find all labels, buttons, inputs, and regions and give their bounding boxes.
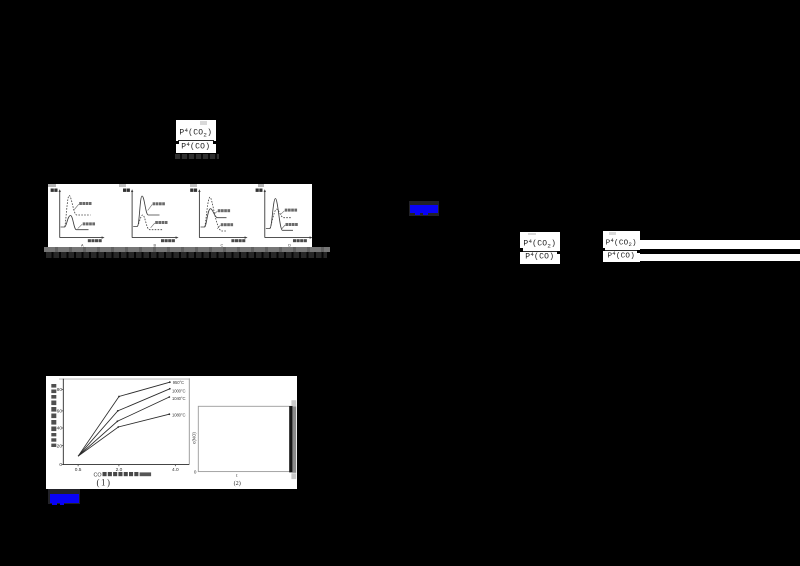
energy diagram C: label reaction lower — [220, 223, 223, 226]
formula image 2: white box — [520, 232, 561, 264]
formula image 1: denominator P4(CO) — [176, 141, 217, 152]
energy diagram D: label reaction upper — [284, 209, 287, 212]
formula image 3: right notch — [637, 250, 640, 253]
svg-text:4.0: 4.0 — [171, 467, 178, 473]
svg-text:60: 60 — [56, 409, 62, 415]
formula image 2: left notch — [519, 248, 522, 251]
formula image 2: grey smudge — [528, 233, 536, 235]
chart 1: curve 1080 C — [78, 414, 169, 456]
chart 2: scrollbar top button — [291, 400, 296, 406]
energy diagram A: label reaction lower — [82, 222, 85, 225]
svg-text:20: 20 — [56, 443, 62, 449]
energy diagram C: label reaction upper — [217, 209, 220, 212]
svg-text:t: t — [236, 474, 238, 479]
energy diagram D: axes — [264, 190, 310, 237]
svg-text:950°C: 950°C — [172, 380, 183, 385]
formula image 2: fraction line — [522, 251, 559, 252]
energy diagram A: x-axis label blob (reaction process) — [87, 239, 90, 242]
energy diagram C: dashed curve reaction II — [204, 197, 226, 231]
strip: dark text row below — [46, 252, 327, 258]
energy diagram C: solid curve reaction I — [200, 209, 226, 227]
energy diagram A: solid curve reaction I — [60, 215, 88, 229]
energy diagram D: dashed curve reaction II — [269, 209, 290, 228]
energy diagram C: x-axis label blob (reaction process) — [231, 239, 234, 242]
chart 1: curve 950 C — [78, 382, 170, 456]
white highlight bar line 1 — [640, 240, 800, 249]
energy diagram A: energy axis label blob — [50, 188, 53, 191]
energy diagram D: label reaction lower — [285, 223, 288, 226]
chart 2: scrollbar bottom button — [291, 473, 296, 479]
energy diagram B: axes — [132, 190, 177, 237]
blue link 2: dark backdrop — [48, 489, 80, 503]
energy diagram D: x-axis label blob (reaction process) — [292, 239, 295, 242]
svg-text:80: 80 — [56, 387, 62, 393]
energy diagram B: solid curve reaction I — [133, 196, 159, 226]
energy diagram C: energy axis label blob — [190, 188, 193, 191]
chart 2: thick black right edge — [289, 406, 292, 472]
chart 1: y-axis title blobs (CaS solid-phase percent) — [51, 384, 56, 388]
formula image 3: numerator P4(CO2) — [603, 237, 641, 248]
svg-text:c(NO): c(NO) — [191, 432, 196, 444]
blue link 1: blue text blob — [410, 205, 438, 213]
chart 1: axes — [63, 379, 189, 465]
svg-text:0: 0 — [193, 470, 196, 475]
svg-text:1000°C: 1000°C — [171, 389, 184, 394]
energy diagram B: label reaction upper — [152, 202, 155, 205]
chart 1: curve 1040 C — [78, 397, 169, 456]
formula image 3: fraction line — [605, 250, 639, 251]
bottom chart panel white background — [46, 376, 297, 489]
strip: grey shadow band below images — [44, 247, 330, 252]
chart 1: curve 1000 C — [78, 389, 170, 456]
formula image 2: right notch — [557, 251, 561, 254]
chart 2: scrollbar shaft — [292, 406, 296, 472]
svg-text:0.5: 0.5 — [74, 467, 81, 473]
svg-text:0: 0 — [59, 462, 62, 468]
formula image 1: dark shadow text row below — [175, 154, 219, 160]
energy diagram B: label reaction lower — [155, 221, 158, 224]
energy diagram D: solid curve reaction I — [265, 198, 292, 230]
energy diagram B: x-axis label blob (reaction process) — [161, 239, 164, 242]
formula image 1: right notch — [213, 141, 217, 144]
chart 2: plot box outline — [198, 406, 290, 471]
formula image 1: white box — [176, 120, 217, 153]
chart panel: separator line between chart images — [188, 378, 189, 464]
formula image 3: left notch — [602, 248, 605, 251]
formula image 3: denominator P4(CO) — [603, 250, 641, 260]
blue link 1: dark backdrop — [409, 201, 440, 217]
svg-text:1080°C: 1080°C — [171, 412, 184, 417]
chart panel: faint top border of embedded image — [59, 378, 190, 379]
energy diagram A: label reaction upper — [79, 202, 82, 205]
svg-text:(2): (2) — [233, 480, 240, 487]
formula image 1: numerator P4(CO2) — [176, 127, 217, 138]
formula image 3: grey smudge — [609, 232, 617, 235]
energy diagram A: dashed curve reaction II — [64, 195, 90, 226]
formula image 2: denominator P4(CO) — [520, 251, 561, 262]
energy diagram A: axes — [59, 190, 102, 237]
svg-text:(1): (1) — [96, 477, 111, 487]
formula image 3: white box — [603, 231, 641, 262]
svg-text:2.0: 2.0 — [115, 467, 122, 473]
svg-text:40: 40 — [56, 426, 62, 432]
strip of four energy diagram images — [48, 184, 313, 247]
formula image 1: grey smudge — [200, 121, 207, 126]
energy diagram B: dashed curve reaction II — [137, 215, 162, 230]
energy diagram B: energy axis label blob — [123, 188, 126, 191]
svg-text:1040°C: 1040°C — [171, 396, 184, 401]
white highlight bar line 2 — [640, 254, 800, 261]
energy diagram C: axes — [199, 190, 246, 237]
formula image 1: left notch — [175, 141, 179, 144]
energy diagram D: energy axis label blob — [255, 188, 258, 191]
blue link 2: blue text blob — [50, 494, 79, 503]
chart 1: x-axis tick labels — [77, 465, 79, 467]
strip: grey smudges at panel tops — [48, 184, 55, 187]
formula image 1: fraction line — [178, 140, 215, 141]
formula image 2: numerator P4(CO2) — [520, 238, 561, 249]
